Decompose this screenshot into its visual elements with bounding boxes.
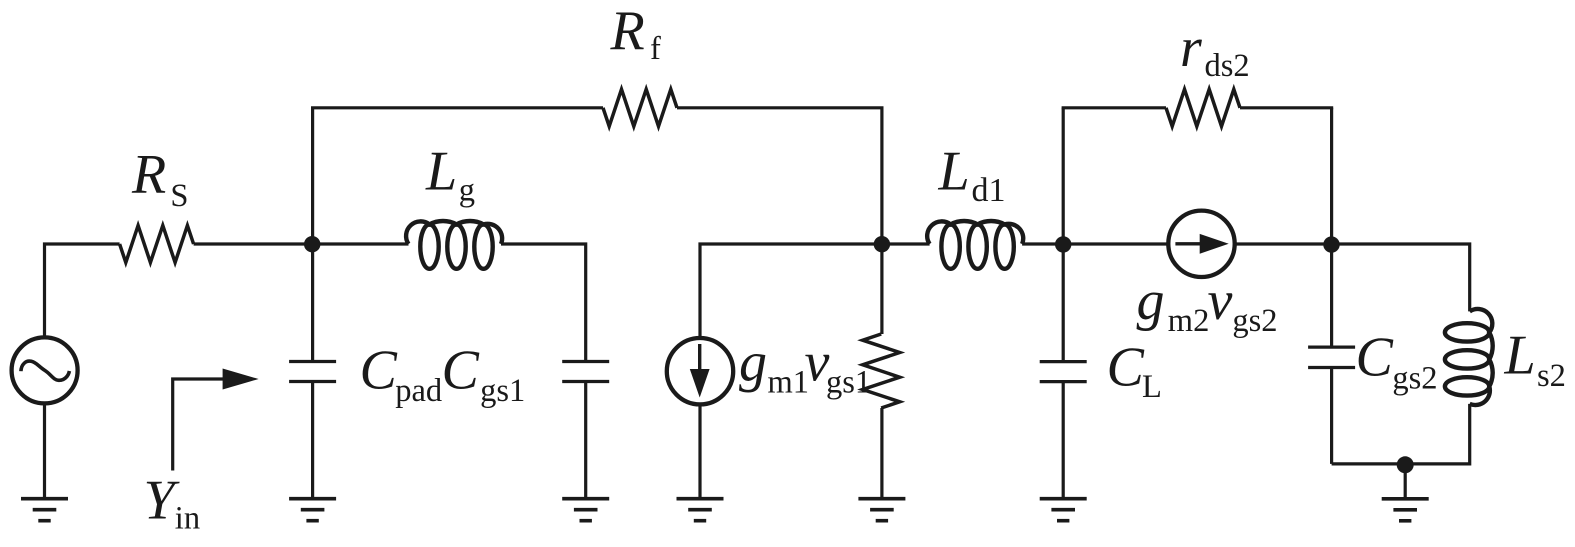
arrow gm1 [698, 344, 701, 372]
svg-text:C: C [1107, 337, 1145, 399]
node C junction dot [1055, 236, 1071, 252]
wire: C_pad to ground [311, 382, 314, 499]
wire: top rail left of r_ds2 [1062, 106, 1166, 109]
wire: top rail left of R_f [311, 106, 603, 109]
wire: gm2 to node D [1236, 242, 1331, 245]
svg-text:C: C [1356, 327, 1394, 389]
inductor Ld1 [927, 221, 1023, 244]
svg-text:R: R [610, 0, 645, 62]
wire: node B down to r_ds1 [880, 244, 883, 334]
inductor Lg [406, 221, 502, 244]
svg-text:in: in [175, 501, 200, 537]
node E (source ref) junction dot [1397, 456, 1414, 473]
svg-text:d1: d1 [972, 172, 1006, 209]
wire: top rail right of R_f [677, 106, 884, 109]
wire: top rail right of r_ds2 [1240, 106, 1333, 109]
svg-text:s2: s2 [1537, 358, 1566, 394]
svg-text:C: C [360, 340, 398, 402]
ground (source) [21, 499, 68, 521]
svg-text:g: g [459, 172, 475, 208]
wire: top rail down to node B [880, 108, 883, 244]
svg-text:gs1: gs1 [826, 365, 871, 401]
capacitor Cgs2 [1308, 345, 1355, 348]
wire: node C up to top rail [1062, 108, 1065, 244]
capacitor CL [1040, 360, 1087, 363]
svg-text:C: C [442, 340, 480, 402]
wire: r_ds1 to ground [880, 408, 883, 499]
capacitor Cpad [289, 360, 336, 363]
wire: R_S to node A [194, 242, 313, 245]
node A junction dot [304, 236, 320, 252]
ground (rds1) [858, 499, 905, 521]
svg-text:gs2: gs2 [1232, 303, 1277, 339]
svg-text:r: r [1180, 17, 1202, 79]
svg-text:R: R [131, 144, 166, 206]
wire: node A down to C_pad [311, 244, 314, 362]
svg-text:g: g [1137, 270, 1165, 332]
resistor rds1 [863, 334, 900, 408]
resistor RS [120, 226, 194, 263]
svg-text:L: L [425, 140, 457, 202]
wire: source to R_S [45, 244, 120, 338]
wire: C_gs2 branch node D down [1330, 244, 1333, 347]
svg-text:L: L [1142, 369, 1162, 405]
wire: node C down to C_L [1062, 244, 1065, 362]
ground (CL) [1040, 499, 1087, 521]
wire: L_d1 to node C [1022, 242, 1063, 245]
wire: C_L to ground [1062, 382, 1065, 499]
ground (Cpad) [289, 499, 336, 521]
wire: C_gs2 down to bottom rail [1330, 368, 1333, 464]
wire: node D to L_s2 corner [1332, 244, 1470, 311]
ground (Ls2/Cgs2) [1382, 499, 1429, 521]
wire: node A to L_g [313, 242, 409, 245]
wire: node A up to top rail [311, 108, 314, 244]
Y_in probe arrow [173, 379, 226, 471]
svg-text:ds2: ds2 [1205, 48, 1250, 84]
inductor Ls2 [1470, 309, 1493, 405]
node D junction dot [1323, 236, 1339, 252]
wire: gm1 corner to node B [700, 244, 882, 338]
sine symbol [21, 361, 70, 380]
node B junction dot [874, 236, 890, 252]
current source U2 circle [1168, 211, 1234, 277]
wire: node C to gm2 [1063, 242, 1166, 245]
ground (Cgs1) [562, 499, 609, 521]
current source U1 circle [667, 338, 733, 404]
svg-text:L: L [1504, 325, 1536, 387]
svg-text:pad: pad [395, 373, 442, 409]
svg-text:L: L [938, 140, 970, 202]
svg-text:S: S [170, 178, 188, 214]
ground (gm1) [677, 499, 724, 521]
arrow gm2 [1175, 242, 1205, 245]
svg-text:g: g [739, 331, 767, 393]
svg-text:gs1: gs1 [480, 373, 525, 409]
svg-text:gs2: gs2 [1392, 361, 1437, 397]
capacitor Cgs1 [562, 360, 609, 363]
resistor Rf [603, 89, 677, 126]
resistor rds2 [1166, 89, 1240, 126]
wire: gm1 to ground [698, 404, 701, 499]
voltage source VS circle [12, 337, 78, 403]
svg-text:v: v [1208, 270, 1233, 332]
wire: L_g to C_gs1 corner [501, 244, 586, 362]
wire: C_gs1 to ground [584, 382, 587, 499]
svg-text:m1: m1 [768, 365, 810, 401]
wire: L_s2 to bottom corner [1332, 404, 1470, 464]
wire: source to ground [43, 403, 46, 499]
svg-text:f: f [650, 31, 661, 67]
svg-text:m2: m2 [1168, 303, 1210, 339]
wire: ground stub bottom right [1404, 464, 1407, 499]
wire: node B to L_d1 [882, 242, 930, 245]
wire: top rail down to node D [1330, 108, 1333, 244]
